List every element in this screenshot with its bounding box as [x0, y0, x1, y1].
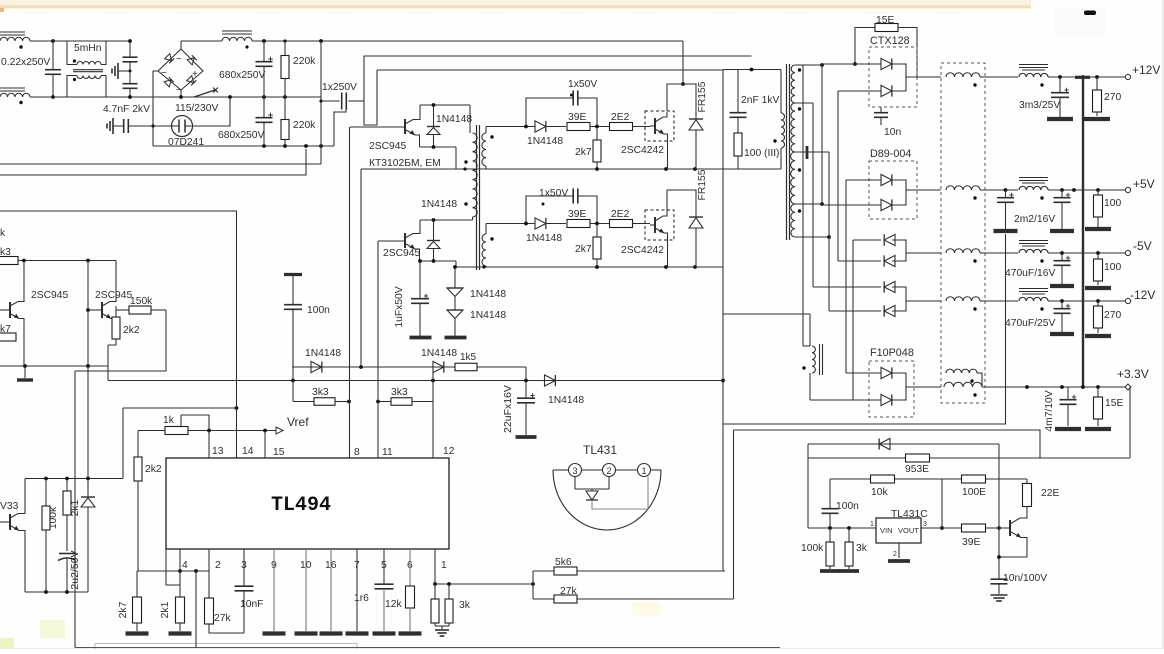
- wire W1: [292, 366, 526, 368]
- svg-text:1N4148: 1N4148: [470, 310, 506, 321]
- svg-text:22uFx16V: 22uFx16V: [502, 385, 514, 433]
- svg-text:12: 12: [443, 446, 455, 457]
- wire pin8 column: [349, 127, 351, 458]
- wire W2: [108, 380, 723, 382]
- svg-text:100n: 100n: [836, 501, 859, 512]
- svg-text:8: 8: [354, 447, 360, 458]
- svg-text:FR155: FR155: [697, 169, 708, 200]
- svg-text:2SC945: 2SC945: [383, 248, 420, 259]
- capacitor 2m2/16V a: [1005, 190, 1007, 198]
- wire T1 tap 4: [795, 203, 822, 205]
- inductor +3.3V a: [946, 369, 977, 373]
- svg-text:2k7: 2k7: [575, 147, 592, 158]
- svg-text:1N4148: 1N4148: [527, 136, 563, 147]
- transistor 2SC945 lower driver: [378, 240, 404, 242]
- wire vertical x822: [821, 64, 823, 205]
- svg-text:3k: 3k: [856, 543, 868, 554]
- svg-text:2k1: 2k1: [70, 499, 81, 516]
- svg-text:2SC945: 2SC945: [31, 290, 68, 301]
- wire: [852, 240, 854, 400]
- wire y458 line: [808, 457, 1130, 459]
- wire: [74, 371, 76, 648]
- wire x236 column: [236, 211, 238, 458]
- svg-text:1N4148: 1N4148: [305, 348, 341, 359]
- svg-text:953E: 953E: [905, 464, 929, 475]
- rectifier -5V diodes: [853, 239, 881, 241]
- diode zener x88: [87, 477, 89, 479]
- wire x88 column: [87, 261, 89, 498]
- wire vertical x803: [802, 65, 804, 346]
- wire pin9: [273, 549, 275, 631]
- svg-text:+3.3V: +3.3V: [1117, 367, 1149, 381]
- black mark top right: [1084, 11, 1096, 16]
- svg-text:11: 11: [382, 447, 393, 458]
- svg-text:1N4148: 1N4148: [421, 348, 457, 359]
- wire emitter rail ch2: [456, 266, 723, 268]
- transformer T3 aux: [809, 314, 811, 346]
- svg-text:100E: 100E: [962, 487, 986, 498]
- svg-text:1r6: 1r6: [354, 593, 369, 604]
- wire Vref: [138, 430, 165, 432]
- wire 150k drop: [75, 310, 166, 371]
- svg-text:2k2: 2k2: [123, 325, 140, 336]
- wire: [0, 163, 321, 165]
- svg-text:2SC4242: 2SC4242: [621, 145, 664, 156]
- wire vertical x813: [812, 103, 814, 287]
- wire x123 column: [122, 408, 124, 479]
- svg-text:−: −: [161, 68, 167, 79]
- resistor 3k a: [434, 584, 436, 599]
- wire collector rail drop: [682, 41, 684, 84]
- svg-text:КТ3102БМ, ЕМ: КТ3102БМ, ЕМ: [369, 158, 441, 169]
- svg-text:22E: 22E: [1041, 488, 1059, 499]
- ground: [17, 378, 33, 381]
- inductor -12V output: [1019, 288, 1048, 290]
- inductor line filter top: [0, 31, 25, 33]
- thermistor 07D241: [172, 116, 193, 137]
- svg-text:2k1: 2k1: [160, 601, 171, 618]
- transformer T2 secondary ch2: [482, 234, 486, 266]
- wire 1k loop: [181, 415, 209, 430]
- inductor output choke L2: [222, 30, 252, 32]
- wire bottom rail: [153, 145, 334, 147]
- svg-text:12k: 12k: [385, 599, 402, 610]
- wire T1 tap bottom: [795, 236, 829, 238]
- svg-text:FR155: FR155: [697, 81, 708, 112]
- svg-text:1: 1: [641, 466, 646, 476]
- wire y479 row: [830, 478, 1027, 480]
- transistor V33 block: [0, 521, 10, 523]
- wire vertical x838: [837, 91, 839, 261]
- svg-text:2u2/50V: 2u2/50V: [69, 550, 81, 589]
- svg-text:3k3: 3k3: [391, 387, 408, 398]
- diode tl431: [591, 489, 593, 491]
- inductor +12V output: [1019, 64, 1048, 66]
- wire y366: [0, 365, 108, 367]
- svg-text:100 (III): 100 (III): [744, 148, 779, 159]
- wire y584 pin1 net: [435, 583, 533, 585]
- wire -12V rail: [1048, 300, 1126, 302]
- wire pin13: [208, 431, 210, 459]
- svg-text:3k: 3k: [459, 600, 471, 611]
- svg-text:0.22x250V: 0.22x250V: [1, 57, 50, 68]
- wire tl431 loop: [592, 477, 648, 510]
- svg-text:2m2/16V: 2m2/16V: [1014, 214, 1055, 225]
- wire x293 column: [292, 309, 294, 402]
- svg-text:39E: 39E: [568, 112, 586, 123]
- wire T1 tap top: [795, 64, 822, 66]
- inductor +3.3V b: [944, 382, 982, 387]
- svg-text:VOUT: VOUT: [898, 526, 919, 535]
- svg-text:D89-004: D89-004: [870, 148, 911, 160]
- wire bridge bottom: [180, 90, 182, 97]
- wire: [101, 76, 106, 98]
- transformer T2 primary winding: [469, 105, 471, 133]
- wire: [53, 96, 130, 98]
- wire: [420, 260, 457, 262]
- svg-text:470uF/25V: 470uF/25V: [1005, 318, 1056, 329]
- transformer T2 core: [476, 125, 478, 270]
- wire pin1: [434, 549, 436, 584]
- svg-text:~: ~: [176, 54, 182, 65]
- wire: [420, 146, 457, 148]
- wire heavy +12V feedback: [1075, 76, 1090, 79]
- svg-text:10k: 10k: [871, 487, 888, 498]
- wire: [53, 40, 130, 42]
- svg-text:k: k: [0, 228, 6, 239]
- wire feedback y444: [808, 443, 999, 445]
- wire pin11 column: [377, 241, 379, 458]
- svg-text:1k5: 1k5: [460, 352, 477, 363]
- wire: [364, 56, 752, 101]
- wire: [334, 106, 346, 146]
- wire pin10: [305, 549, 307, 631]
- svg-text:2SC945: 2SC945: [369, 141, 406, 152]
- svg-text:100: 100: [1104, 262, 1121, 273]
- svg-text:220k: 220k: [293, 56, 316, 67]
- svg-text:2E2: 2E2: [611, 112, 630, 123]
- svg-text:10n: 10n: [884, 127, 901, 138]
- terminal +3.3V: [1125, 384, 1131, 390]
- wire vertical x846: [845, 180, 847, 373]
- wire y592 rail: [25, 591, 88, 593]
- svg-text:1N4148: 1N4148: [470, 289, 506, 300]
- svg-text:270: 270: [1104, 310, 1121, 321]
- wire tl431 internals: [574, 477, 576, 490]
- wire: [455, 261, 457, 267]
- wire y528 row: [808, 527, 1008, 529]
- earth pin1: [435, 625, 449, 627]
- IC TL494: [166, 458, 449, 549]
- wire mid rail: [106, 96, 321, 98]
- wire +5V rail: [1048, 189, 1126, 191]
- svg-text:-12V: -12V: [1130, 288, 1155, 302]
- transistor 2SC945 upper driver: [350, 126, 404, 128]
- wire vertical x829: [828, 152, 830, 311]
- wire 5k6 riser: [722, 570, 724, 572]
- svg-text:1k: 1k: [163, 415, 175, 426]
- wire: [101, 41, 106, 65]
- svg-text:14: 14: [242, 446, 254, 457]
- transformer T1 core: [786, 64, 788, 240]
- svg-text:2: 2: [606, 466, 611, 476]
- wire +12V rail: [1048, 76, 1126, 78]
- svg-text:220k: 220k: [293, 120, 316, 131]
- svg-text:100n: 100n: [307, 305, 330, 316]
- bridge rectifier: [158, 49, 203, 90]
- wire pin15: [264, 431, 266, 459]
- diode feedback: [879, 438, 890, 449]
- wire half-bridge bus: [722, 70, 724, 571]
- svg-text:15E: 15E: [1105, 398, 1123, 409]
- inductor -5V a: [946, 249, 980, 253]
- transistor 2SC4242 ch2: [645, 210, 674, 240]
- wire: [24, 260, 116, 262]
- wire y585: [166, 549, 180, 585]
- svg-text:1N4148: 1N4148: [526, 233, 562, 244]
- svg-text:5mHn: 5mHn: [74, 43, 102, 54]
- wire -5V rail: [1048, 252, 1126, 254]
- wire T1 center tap ground: [794, 151, 829, 153]
- svg-text:-5V: -5V: [1133, 239, 1152, 253]
- inductor -12V a: [946, 297, 980, 301]
- wire x942: [941, 479, 943, 528]
- wire rail to 2nF: [377, 69, 723, 71]
- wire x808 column: [807, 444, 809, 528]
- wire: [420, 219, 473, 221]
- svg-text:3: 3: [923, 521, 927, 528]
- wire left vertex: [153, 71, 158, 146]
- Y capacitors: [129, 41, 131, 57]
- svg-text:TL494: TL494: [271, 494, 331, 517]
- wire: [364, 70, 377, 125]
- svg-text:2k2: 2k2: [145, 464, 162, 475]
- svg-text:1x50V: 1x50V: [568, 79, 597, 90]
- wire y424 loop: [723, 234, 1006, 424]
- wire: [0, 149, 306, 175]
- svg-text:100k: 100k: [801, 543, 824, 554]
- svg-text:1N4148: 1N4148: [548, 395, 584, 406]
- svg-text:470uF/16V: 470uF/16V: [1005, 268, 1056, 279]
- svg-text:F10P048: F10P048: [870, 347, 914, 359]
- transistor fb: [1009, 520, 1011, 536]
- wire +3.3V rail: [982, 386, 1125, 388]
- wire: [107, 345, 109, 381]
- transformer T2 secondary ch1: [482, 133, 486, 166]
- svg-text:100: 100: [1104, 198, 1121, 209]
- svg-text:27k: 27k: [214, 613, 231, 624]
- wire rail y211: [0, 210, 237, 212]
- transformer T1 primary: [780, 70, 782, 114]
- svg-text:2nF 1kV: 2nF 1kV: [741, 95, 779, 106]
- svg-text:10n/100V: 10n/100V: [1003, 573, 1047, 584]
- wire top rail 310V: [252, 40, 683, 42]
- wire x433 column: [432, 367, 434, 458]
- inductor line filter bottom: [0, 87, 25, 89]
- svg-text:+5V: +5V: [1133, 177, 1155, 191]
- wire y430 loop: [734, 430, 1041, 458]
- wire jog: [75, 366, 88, 371]
- svg-text:680x250V: 680x250V: [219, 70, 266, 81]
- svg-text:1: 1: [870, 521, 874, 528]
- svg-text:1uFx50V: 1uFx50V: [394, 286, 405, 327]
- inductor +5V a: [946, 186, 980, 190]
- svg-text:4m7/10V: 4m7/10V: [1044, 390, 1055, 431]
- svg-text:1x250V: 1x250V: [322, 82, 357, 93]
- svg-text:3k3: 3k3: [312, 387, 329, 398]
- wire x533: [532, 571, 534, 599]
- wire snubber top: [723, 69, 781, 71]
- wire: [667, 84, 696, 113]
- wire T1 tap 2: [795, 102, 813, 104]
- wire y571: [137, 570, 209, 572]
- svg-text:2k7: 2k7: [118, 601, 129, 618]
- svg-text:Vref: Vref: [287, 415, 309, 429]
- wire x733 column: [733, 430, 735, 599]
- svg-text:2k7: 2k7: [575, 244, 592, 255]
- svg-text:39E: 39E: [568, 209, 586, 220]
- wire: [67, 76, 77, 98]
- wire: [455, 147, 457, 169]
- wire bus left: [320, 41, 322, 164]
- svg-text:1: 1: [441, 560, 447, 571]
- svg-text:+12V: +12V: [1132, 63, 1160, 77]
- svg-text:150k: 150k: [130, 296, 153, 307]
- svg-text:3: 3: [572, 466, 577, 476]
- svg-text:5k6: 5k6: [555, 557, 572, 568]
- svg-text:2E2: 2E2: [611, 209, 630, 220]
- wire +3.3V terminal drop: [1129, 387, 1131, 458]
- svg-text:TL431: TL431: [583, 443, 617, 457]
- earth ground Y-cap midpoint: [117, 63, 119, 79]
- svg-text:4.7nF 2kV: 4.7nF 2kV: [103, 104, 150, 115]
- rectifier -12V diodes: [813, 286, 881, 288]
- wire: [67, 41, 77, 65]
- svg-text:1N4148: 1N4148: [436, 114, 472, 125]
- svg-text:680x250V: 680x250V: [218, 130, 265, 141]
- svg-text:2: 2: [215, 560, 221, 571]
- svg-text:VIN: VIN: [880, 526, 893, 535]
- svg-text:270: 270: [1104, 92, 1121, 103]
- svg-text:13: 13: [212, 446, 224, 457]
- wire bottom bus: [75, 647, 780, 649]
- wire pin16: [330, 549, 332, 631]
- svg-text:CTX128: CTX128: [870, 35, 910, 47]
- wire pin7: [356, 549, 358, 631]
- inductor -5V output: [1019, 240, 1048, 242]
- svg-text:115/230V: 115/230V: [175, 103, 218, 114]
- inductor +12V a: [946, 73, 980, 77]
- wire: [420, 104, 470, 106]
- wire pin14: [236, 408, 238, 412]
- transistor 2SC4242 ch1: [645, 111, 674, 141]
- svg-text:+: +: [192, 69, 198, 80]
- svg-text:39E: 39E: [962, 537, 980, 548]
- svg-text:4: 4: [182, 560, 188, 571]
- transformer T1 secondary: [791, 65, 795, 103]
- wire y408: [123, 407, 237, 409]
- wire y314 link: [723, 313, 810, 315]
- wire y478: [25, 478, 123, 480]
- svg-text:3m3/25V: 3m3/25V: [1019, 100, 1060, 111]
- svg-text:1x50V: 1x50V: [539, 188, 568, 199]
- wire x999: [998, 444, 1000, 579]
- wire snubber bottom: [723, 168, 781, 170]
- wire emitter rail ch1: [361, 168, 723, 170]
- wire pin4 area: [179, 549, 181, 585]
- gray box bottom left: [95, 643, 357, 645]
- svg-text:V33: V33: [0, 501, 19, 512]
- svg-text:15: 15: [273, 447, 285, 458]
- dashed box output common choke: [941, 63, 985, 403]
- wire x196 column: [195, 571, 197, 648]
- svg-text:2SC4242: 2SC4242: [621, 245, 664, 256]
- vertical x361: [360, 169, 362, 367]
- svg-text:2: 2: [893, 551, 897, 558]
- svg-text:2SC945: 2SC945: [95, 290, 132, 301]
- inductor +5V output: [1019, 177, 1048, 179]
- svg-text:1N4148: 1N4148: [421, 199, 457, 210]
